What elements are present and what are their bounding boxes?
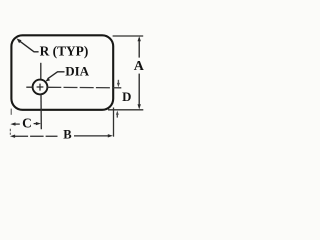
horizontal centerline left [26, 86, 32, 88]
dimension line B right [74, 135, 109, 137]
leader R [20, 41, 39, 52]
dimension line A upper [138, 38, 140, 58]
extension line right (B) [113, 108, 115, 137]
extension line left upper [10, 109, 12, 115]
arrowhead A top [138, 36, 141, 41]
horizontal centerline right / D extension [47, 86, 121, 89]
leader DIA [48, 72, 65, 79]
extension line top right [113, 35, 144, 37]
svg-text:R (TYP): R (TYP) [40, 43, 89, 58]
extension line left lower [9, 129, 11, 135]
svg-text:C: C [22, 116, 32, 131]
svg-text:A: A [134, 59, 145, 74]
extension line bottom right [108, 109, 143, 111]
svg-text:B: B [63, 128, 72, 142]
arrowhead C left [10, 122, 15, 125]
dimension D top arrow stem [117, 80, 119, 84]
plate outline (rounded-corner chassis) [11, 35, 113, 110]
hole circle [33, 80, 48, 95]
vertical centerline lower [40, 94, 42, 129]
dimension line C right [34, 123, 37, 125]
leader R arrowhead [17, 38, 22, 43]
arrowhead B left [10, 135, 15, 138]
hole center cross [37, 84, 44, 91]
vertical centerline [40, 63, 42, 80]
dimension line A lower [138, 74, 140, 108]
dimension line C left [15, 123, 20, 125]
svg-text:DIA: DIA [65, 64, 89, 79]
leader DIA arrowhead [45, 77, 50, 81]
arrowhead D bottom [116, 111, 119, 115]
dimension line B left [15, 135, 58, 137]
arrowhead C right [36, 122, 41, 125]
arrowhead D top [117, 83, 120, 87]
dimension D bottom arrow stem [116, 113, 118, 117]
svg-text:D: D [122, 90, 131, 104]
arrowhead A bottom [138, 104, 141, 109]
arrowhead B right [108, 134, 113, 137]
